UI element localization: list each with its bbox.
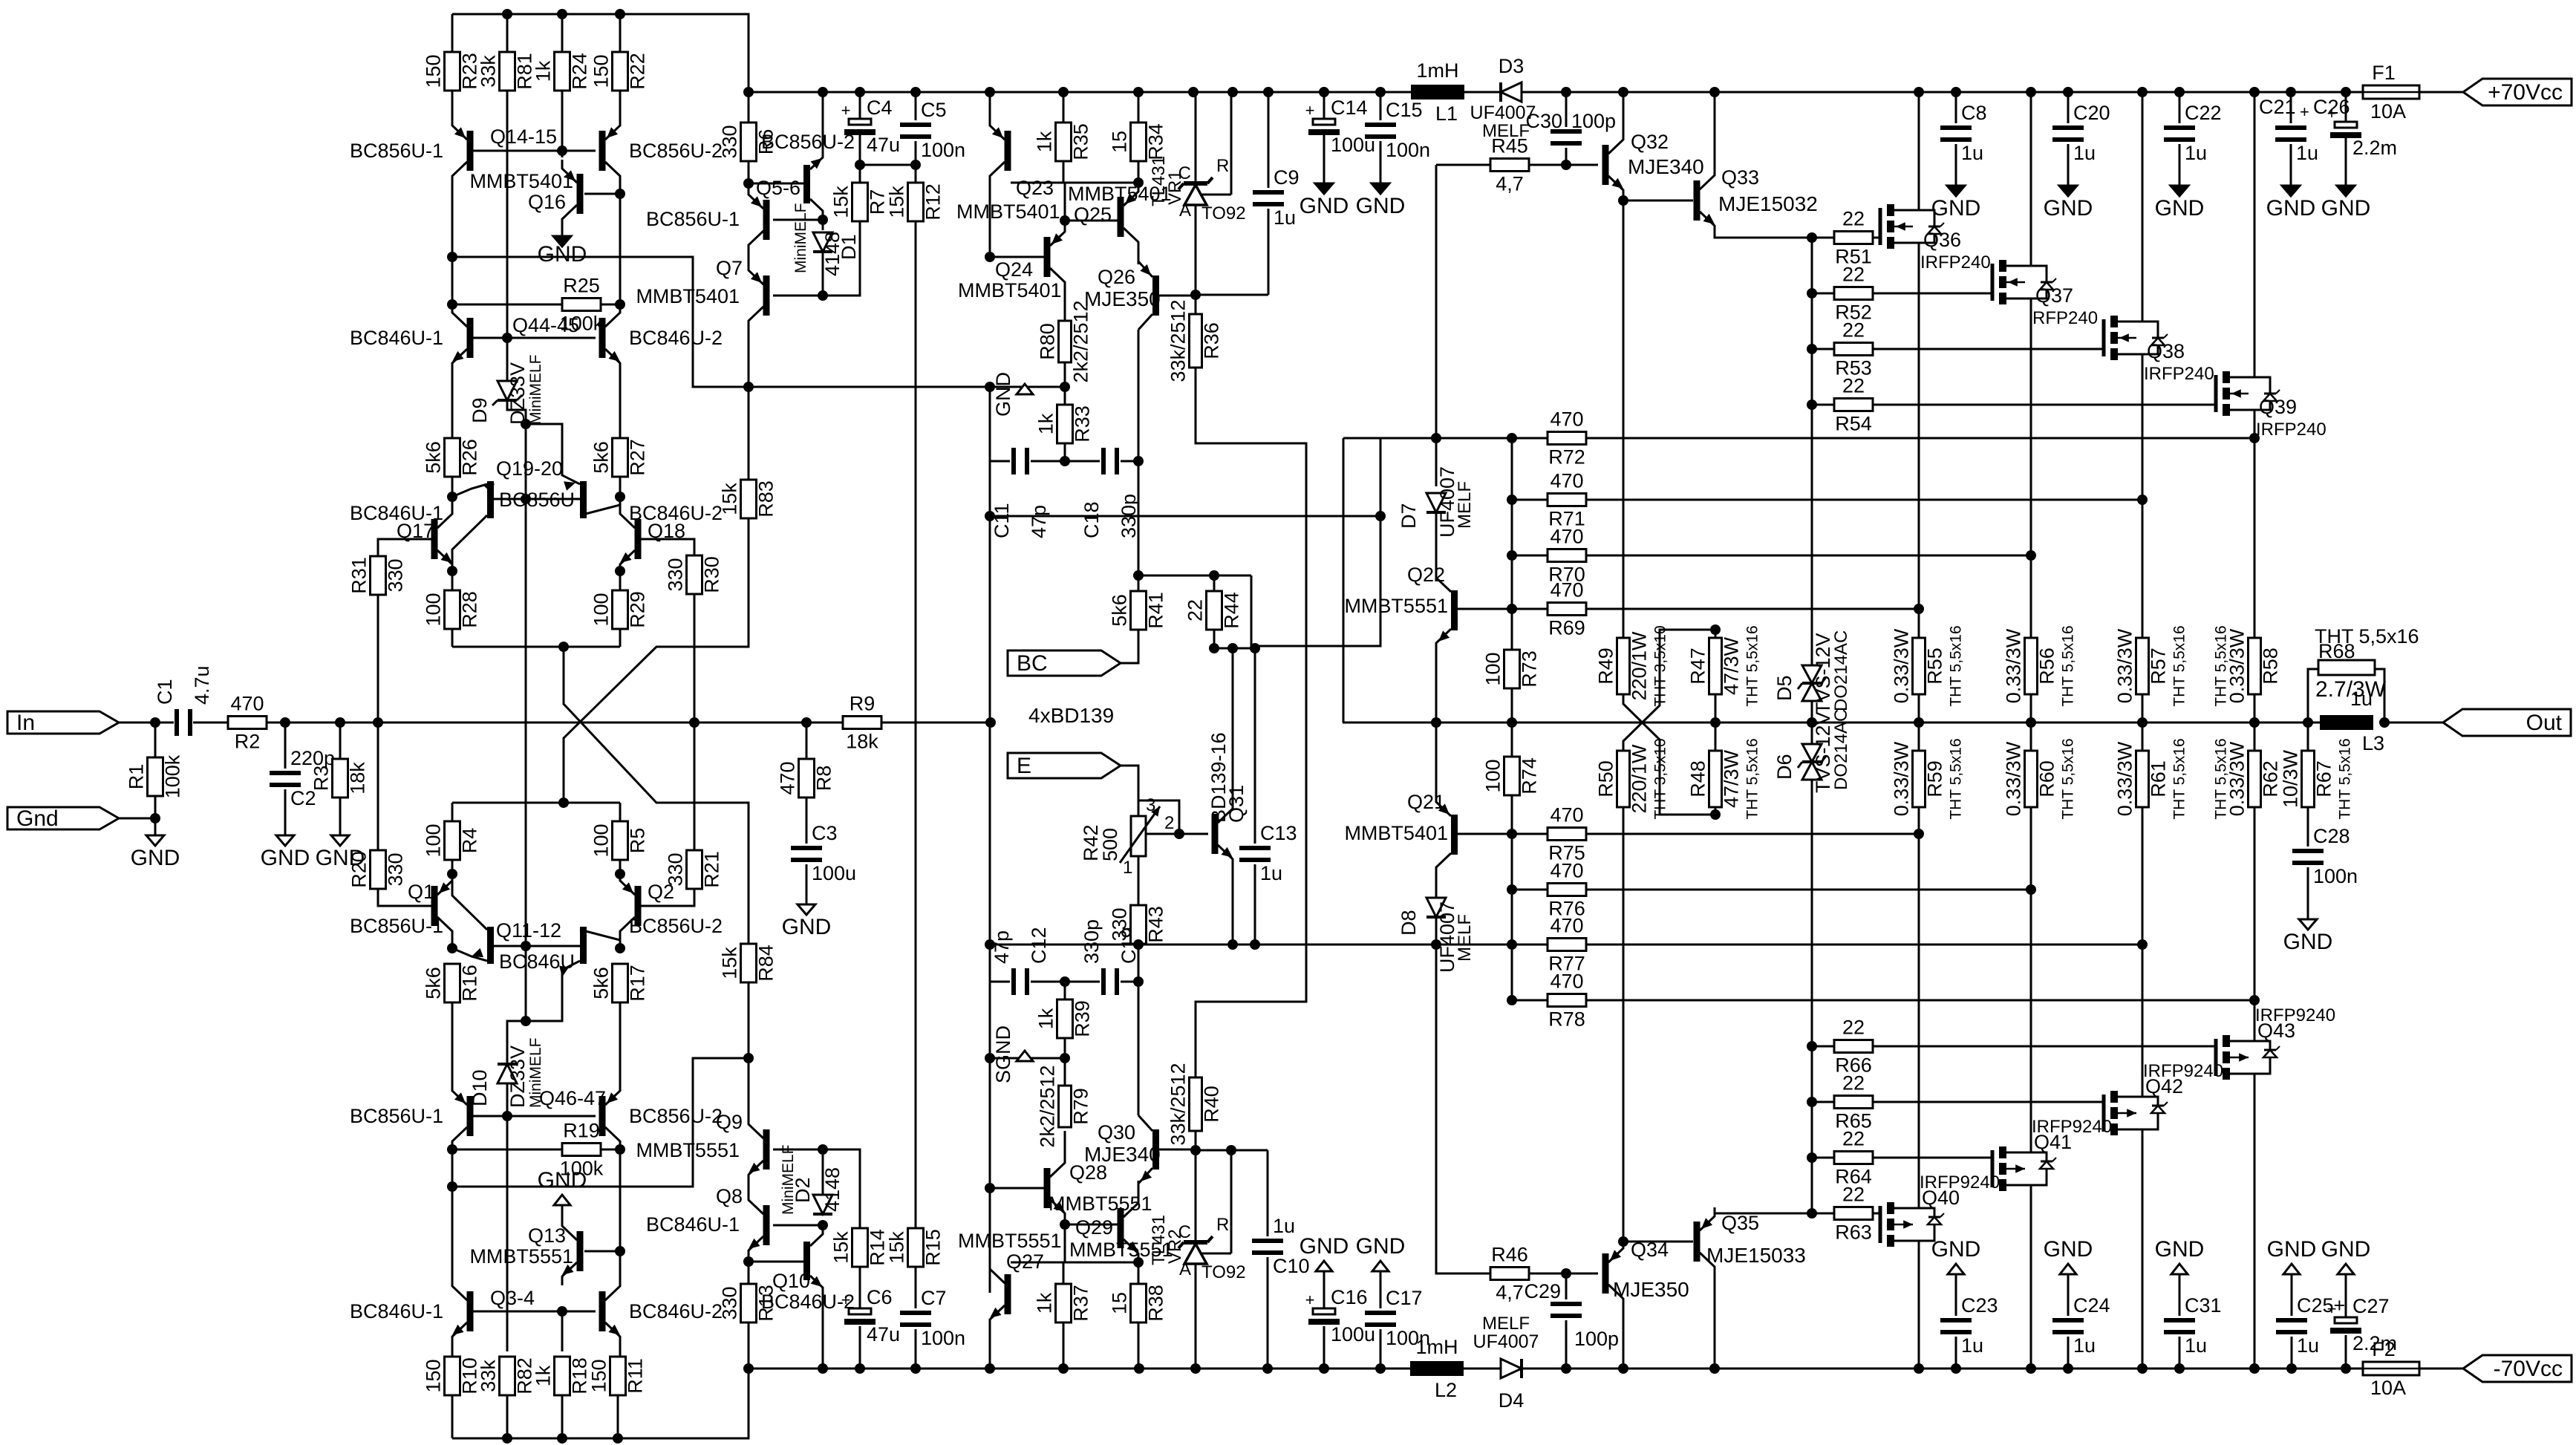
wire C4-C5 link: [860, 164, 916, 166]
MOSFET Q37 RFP240: [1991, 260, 2057, 304]
svg-text:-70Vcc: -70Vcc: [2494, 1357, 2563, 1381]
capacitor C3 100u: [791, 822, 856, 884]
svg-text:BC856U: BC856U: [499, 489, 575, 511]
ground C20: [2044, 186, 2093, 221]
resistor R80 2k2: [1037, 300, 1092, 382]
wire bus to R54: [1812, 404, 1834, 406]
wire Q31 collector: [1232, 648, 1234, 800]
wire R9 right: [881, 722, 991, 724]
label Q25: [1074, 203, 1112, 226]
capacitor C5 100n: [900, 99, 965, 161]
junction R78 right: [2249, 995, 2260, 1005]
label 100p: [1571, 110, 1616, 132]
svg-text:100: 100: [590, 823, 613, 857]
wire Q27 collector: [989, 1188, 991, 1260]
wire R22 top stub: [619, 14, 622, 52]
svg-text:1k: 1k: [532, 1365, 555, 1386]
junction zener col Q20: [521, 419, 531, 429]
svg-text:IRFP240: IRFP240: [2256, 420, 2326, 440]
svg-text:R50: R50: [1595, 760, 1617, 797]
svg-text:C20: C20: [2073, 102, 2110, 124]
svg-text:2k2/2512: 2k2/2512: [1037, 1065, 1059, 1147]
resistor R81 33k: [477, 52, 536, 91]
svg-text:C6: C6: [867, 1286, 893, 1308]
label D9: [469, 397, 491, 423]
junction on -rail: [1319, 1363, 1329, 1374]
resistor R75 470: [1548, 804, 1586, 864]
transistor Q35 MJE15033: [1694, 1207, 1715, 1276]
svg-text:10/3W: 10/3W: [2280, 749, 2302, 808]
wire Q24 collector: [1064, 291, 1066, 321]
svg-text:100: 100: [1482, 759, 1504, 792]
wire C10 bottom row: [1196, 1149, 1268, 1152]
wire -rail after D4: [1522, 1368, 2363, 1370]
wire R78 row b: [1586, 999, 2254, 1002]
label Q27: [1006, 1250, 1044, 1273]
resistor R10 150: [423, 1357, 481, 1395]
junction VR1 anode node: [1190, 290, 1201, 300]
transistor Q21 MMBT5401: [1344, 722, 1458, 897]
junction on +rail: [1227, 87, 1238, 97]
svg-text:MELF: MELF: [1482, 1314, 1530, 1334]
label R68 THT: [2315, 625, 2419, 648]
svg-text:22: 22: [1842, 319, 1865, 342]
transistor Q13 MMBT5551: [562, 1217, 584, 1285]
svg-text:R31: R31: [348, 557, 371, 594]
MOSFET Q39 IRFP240: [2214, 371, 2280, 416]
wire R1 to gnd: [154, 796, 157, 835]
svg-text:2: 2: [1164, 813, 1174, 833]
label Q10: [772, 1270, 810, 1292]
svg-text:C17: C17: [1386, 1287, 1423, 1309]
capacitor C11 47p: [991, 448, 1050, 538]
svg-text:15k: 15k: [719, 483, 741, 515]
svg-text:C25+: C25+: [2297, 1294, 2345, 1317]
wire R75 row b: [1586, 833, 1919, 835]
wire R10 bottom: [451, 1395, 454, 1438]
capacitor C22 1u: [2164, 102, 2222, 164]
wire Q32 emitter col: [1623, 199, 1625, 638]
resistor R14 15k: [830, 1228, 889, 1267]
label Q29: [1075, 1216, 1113, 1239]
svg-text:330: 330: [1109, 907, 1131, 941]
junction lower tail: [558, 797, 569, 808]
junction gnd: [150, 813, 160, 823]
junction on -rail: [1951, 1363, 1961, 1374]
svg-text:1u: 1u: [2350, 688, 2373, 710]
svg-text:R41: R41: [1145, 592, 1167, 629]
svg-text:R12: R12: [922, 183, 945, 221]
wire R68 up: [2308, 669, 2318, 722]
svg-text:+: +: [2300, 102, 2309, 121]
wire y775 row: [1138, 575, 1251, 577]
net flag E: [1008, 753, 1121, 778]
svg-text:MJE350: MJE350: [1084, 287, 1161, 310]
junction Q17 col: [447, 566, 457, 576]
svg-text:Q30: Q30: [1098, 1121, 1135, 1144]
resistor R35 1k: [1034, 123, 1092, 161]
junction L3 right: [2379, 717, 2390, 728]
svg-text:R44: R44: [1221, 592, 1243, 629]
label Q17: [397, 520, 434, 542]
label Q43 IRFP9240: [2255, 1005, 2335, 1025]
svg-text:D9: D9: [469, 397, 491, 423]
svg-text:BC856U-2: BC856U-2: [629, 915, 723, 937]
wire Q33 collector: [1714, 92, 1716, 166]
wire R25 row b: [601, 304, 620, 306]
svg-text:R22: R22: [627, 53, 649, 90]
wire Q34 collector: [1623, 1308, 1625, 1369]
svg-text:15: 15: [1109, 1292, 1131, 1314]
wire R53 to Q38: [1873, 348, 2104, 350]
junction R53 bus: [1807, 344, 1817, 354]
label DZ33V: [506, 362, 529, 425]
wire R61 top: [2142, 722, 2144, 751]
ground under R3: [316, 835, 365, 870]
ground C25+: [2267, 1237, 2317, 1274]
wire col D lower 7: [619, 1345, 622, 1357]
wire C13 bottom: [1254, 864, 1256, 945]
transistor Q29 MMBT5551: [1118, 1194, 1139, 1262]
junction gnd row A: [447, 252, 457, 262]
svg-text:Gnd: Gnd: [16, 806, 59, 831]
svg-text:BC846U-1: BC846U-1: [646, 1213, 740, 1236]
ground C14: [1300, 183, 1349, 218]
wire input: [119, 722, 174, 724]
svg-text:33k: 33k: [477, 55, 500, 88]
svg-text:R59: R59: [1924, 760, 1946, 797]
junction sgnd row col: [985, 1053, 995, 1063]
svg-text:R4: R4: [459, 828, 481, 854]
junction R13 top: [743, 1256, 754, 1267]
svg-text:220/1W: 220/1W: [1628, 631, 1651, 701]
junction on -rail: [1134, 1363, 1144, 1374]
junction Q34 emitter Q35 base: [1618, 1236, 1628, 1247]
resistor R59 0.33: [1891, 738, 1965, 819]
svg-text:R54: R54: [1835, 413, 1872, 435]
svg-text:33k: 33k: [477, 1360, 500, 1392]
wire R37 bottom: [1063, 1322, 1065, 1369]
junction on +rail: [2137, 87, 2148, 97]
svg-text:D8: D8: [1398, 910, 1420, 936]
junction Q44-45 base: [502, 333, 512, 343]
resistor R4 100: [423, 821, 481, 860]
wire Q31 emitter: [1232, 868, 1234, 945]
wire R19 row: [452, 1149, 562, 1151]
resistor R45 4,7: [1490, 135, 1529, 195]
label Q41: [2034, 1131, 2072, 1153]
wire R13 top: [748, 1262, 750, 1285]
junction C4 R7: [855, 160, 865, 170]
svg-text:1u: 1u: [2073, 1334, 2096, 1357]
supply flag +70Vcc: [2463, 79, 2572, 105]
svg-text:Q31: Q31: [1225, 785, 1248, 823]
svg-text:Q1: Q1: [408, 881, 434, 903]
transistor Q4 BC846U-2: [599, 1277, 621, 1345]
svg-text:C1: C1: [154, 679, 176, 705]
junction Q23 col Q24 base: [985, 252, 995, 262]
wire -rail: [749, 1368, 1411, 1370]
label Q18: [648, 520, 685, 542]
wire R81 to base rail: [506, 91, 509, 338]
svg-text:BC846U-2: BC846U-2: [629, 1300, 723, 1322]
svg-text:Q3-4: Q3-4: [490, 1287, 535, 1309]
svg-text:R69: R69: [1548, 617, 1585, 639]
wire Q9 base: [773, 1149, 860, 1228]
wire R39 top: [1064, 982, 1066, 1000]
transistor Q27 MMBT5551: [990, 1260, 1011, 1328]
label Q16: [528, 191, 566, 213]
wire R66 to Q43: [1873, 1046, 2216, 1048]
transistor Q6 BC856U-2: [803, 152, 823, 218]
resistor R21 330: [665, 850, 723, 889]
label MMBT5551 Q28: [1049, 1193, 1152, 1215]
junction R45 col R72: [1431, 433, 1441, 443]
label MMBT5551 Q9: [636, 1139, 740, 1161]
junction R48 bottom: [1710, 809, 1721, 820]
junction on +rail: [2286, 87, 2296, 97]
svg-text:R3: R3: [310, 766, 333, 792]
junction on -rail: [985, 1363, 995, 1374]
junction Q1 col: [447, 869, 457, 879]
svg-text:In: In: [16, 711, 35, 735]
resistor R7 15k: [830, 183, 889, 221]
wire Q40 source: [1918, 807, 1920, 1202]
junction R19 D: [615, 1144, 625, 1155]
ground C22: [2155, 186, 2205, 221]
label Q38 IRFP240: [2144, 364, 2214, 384]
label MMBT5401 Q16: [469, 170, 573, 192]
wire Q23 base row: [1011, 182, 1138, 184]
ground under R1: [131, 835, 180, 870]
wire R8 down: [806, 722, 808, 759]
svg-text:10A: 10A: [2370, 1377, 2406, 1399]
junction on +rail: [1709, 87, 1720, 97]
label MJE15033 Q35: [1706, 1244, 1806, 1267]
junction C2: [280, 717, 290, 728]
wire Q16 collector to gnd: [561, 228, 564, 236]
resistor R16 5k6: [423, 964, 481, 1002]
wire Q27 emitter col: [989, 1328, 991, 1369]
wire Q35 collector: [1714, 1276, 1716, 1369]
svg-text:C11: C11: [991, 503, 1013, 538]
wire Q30 base: [1159, 1149, 1196, 1151]
ground C28: [2283, 919, 2333, 954]
wire R75 row: [1458, 833, 1548, 835]
svg-text:R1: R1: [125, 764, 148, 790]
wire D5 bottom: [1811, 701, 1813, 744]
junction R8: [801, 717, 812, 728]
wire C25+ bottom: [2291, 1337, 2293, 1369]
svg-text:1k: 1k: [532, 60, 555, 82]
svg-text:+: +: [2327, 1299, 2337, 1318]
wire R81 top stub: [506, 14, 509, 52]
junction R72 right: [2249, 433, 2260, 443]
wire zener col to D10: [507, 1021, 526, 1063]
svg-text:22: 22: [1842, 375, 1865, 397]
label BC846U: [499, 950, 575, 973]
wire Q16 base: [584, 193, 620, 195]
wire C12 row: [990, 981, 1010, 983]
net flag BC: [1008, 650, 1121, 676]
ground C16: [1300, 1234, 1349, 1271]
junction C13 bottom: [1250, 939, 1260, 950]
junction D8 y1272: [1431, 939, 1441, 950]
resistor R82 33k: [477, 1357, 536, 1395]
wire Q9 collector: [748, 1058, 750, 1115]
junction R58 mid: [2249, 717, 2260, 728]
label D10: [469, 1069, 491, 1106]
svg-text:470: 470: [777, 761, 799, 795]
label BC856U-2 Q6: [761, 131, 855, 153]
svg-text:BC856U-1: BC856U-1: [350, 915, 443, 937]
wire Q42 drain: [2142, 1135, 2144, 1369]
wire R6 bottom: [748, 160, 750, 183]
wire D7 to Q22: [1435, 513, 1438, 581]
junction on +rail: [1188, 87, 1199, 97]
svg-text:GND: GND: [538, 1168, 587, 1193]
resistor R58 0.33: [2213, 625, 2282, 706]
wire Q13 collector: [561, 1205, 564, 1217]
wire col D upper 1: [619, 91, 622, 117]
wire Q6 base: [749, 183, 803, 185]
svg-text:MELF: MELF: [1455, 914, 1475, 962]
wire Q41 drain: [2030, 1191, 2032, 1369]
wire D1 col top: [822, 92, 824, 152]
svg-text:Q40: Q40: [1922, 1187, 1960, 1209]
svg-text:1u: 1u: [1961, 142, 1983, 164]
wire R64 to Q41: [1873, 1157, 1992, 1159]
svg-text:C8: C8: [1961, 102, 1987, 124]
svg-text:C7: C7: [921, 1287, 947, 1309]
wire C24 bottom: [2067, 1337, 2070, 1369]
signal ground SGND: [992, 1025, 1033, 1083]
junction on -rail: [1618, 1363, 1628, 1374]
svg-text:Q5-6: Q5-6: [756, 177, 800, 199]
wire R13 bottom: [748, 1322, 750, 1369]
label L3 1u: [2350, 688, 2373, 710]
junction R43 y1272: [1133, 939, 1144, 950]
svg-text:C16: C16: [1331, 1286, 1368, 1308]
svg-text:GND: GND: [2155, 196, 2205, 221]
svg-text:100: 100: [423, 593, 445, 626]
wire R73 bottom: [1511, 688, 1513, 722]
svg-text:L1: L1: [1435, 102, 1458, 125]
junction on +rail: [1914, 87, 1924, 97]
junction R64 bus: [1807, 1152, 1817, 1163]
svg-text:R17: R17: [627, 965, 649, 1002]
wire R70 row: [1512, 555, 1548, 557]
svg-text:R19: R19: [563, 1120, 600, 1142]
wire R52 to Q37: [1873, 293, 1992, 295]
wire R23 top stub: [451, 14, 454, 52]
wire C2 down: [284, 722, 287, 769]
wire C25+ top: [2291, 1274, 2293, 1316]
svg-text:DO214AC: DO214AC: [1831, 709, 1851, 790]
capacitor C23 1u: [1940, 1294, 1998, 1357]
svg-text:100: 100: [1482, 652, 1504, 685]
svg-text:BC846U-1: BC846U-1: [350, 327, 443, 349]
wire C11 row: [990, 460, 1010, 463]
ground C31: [2155, 1237, 2205, 1274]
svg-text:MMBT5401: MMBT5401: [956, 200, 1060, 223]
wire y595 row: [1343, 437, 1436, 440]
junction R45 C30: [1561, 160, 1571, 170]
svg-text:THT 5,5x16: THT 5,5x16: [2213, 625, 2230, 706]
svg-text:MiniMELF: MiniMELF: [792, 203, 809, 273]
wire R60 top: [2030, 722, 2032, 751]
wire R63 to Q40: [1873, 1213, 1880, 1215]
ground C23: [1931, 1237, 1981, 1274]
resistor R6 330: [719, 123, 777, 161]
wire Q28 collector: [1064, 1131, 1066, 1154]
wire col D upper 3: [619, 372, 622, 438]
svg-text:22: 22: [1842, 208, 1865, 230]
svg-text:GND: GND: [1931, 196, 1981, 221]
svg-text:100n: 100n: [1386, 139, 1430, 161]
svg-text:GND: GND: [2044, 1237, 2093, 1262]
wire C20 bottom: [2067, 144, 2070, 186]
svg-text:Q42: Q42: [2145, 1075, 2183, 1097]
transistor Q8 BC846U-1: [749, 1191, 770, 1259]
wire Q43 drain: [2254, 1080, 2256, 1369]
svg-text:Q22: Q22: [1407, 564, 1445, 586]
wire R34 bottom stub: [1138, 161, 1140, 183]
resistor R12 15k: [886, 183, 945, 221]
wire bottom mini rail: [452, 1369, 749, 1438]
junction Q7 base D1: [818, 290, 828, 301]
svg-text:R56: R56: [2036, 648, 2058, 685]
svg-text:Q46-47: Q46-47: [539, 1087, 606, 1109]
transistor Q1 BC856U-1: [431, 872, 453, 940]
junction R77 bus: [1507, 939, 1517, 950]
junction wiper: [1174, 829, 1184, 839]
svg-text:1k: 1k: [1034, 1292, 1056, 1314]
label BC846U-1 Q44: [350, 327, 443, 349]
label D2 MiniMELF: [780, 1144, 797, 1215]
junction Q18 col: [615, 566, 625, 576]
label D7: [1398, 503, 1420, 529]
label R68: [2318, 640, 2355, 662]
svg-text:THT 5,5x16: THT 5,5x16: [1744, 625, 1761, 706]
junction Q5 base D1: [818, 215, 828, 225]
svg-text:GND: GND: [782, 915, 832, 939]
wire R59 top: [1918, 722, 1920, 751]
junction R72 bus: [1507, 433, 1517, 443]
svg-text:3: 3: [1146, 795, 1155, 815]
svg-text:R28: R28: [459, 591, 481, 628]
wire gate bus lower: [1811, 780, 1813, 1213]
junction on -rail: [1058, 1363, 1069, 1374]
wire C6 bottom: [859, 1326, 861, 1369]
svg-text:MMBT5551: MMBT5551: [958, 1230, 1062, 1252]
transistor Q11 BC846U: [452, 874, 494, 964]
wire col A lower 5: [451, 1002, 454, 1082]
svg-text:10A: 10A: [2370, 100, 2406, 123]
label BC846U-1 Q8: [646, 1213, 740, 1236]
wire R31 to Q17 base: [378, 539, 431, 556]
capacitor C24 1u: [2052, 1294, 2110, 1357]
wire R67 to C28: [2307, 807, 2309, 847]
label BC856U-1 Q14: [350, 140, 443, 162]
capacitor C17 100n: [1365, 1287, 1430, 1349]
junction R47 top: [1710, 624, 1721, 635]
wire Q9-Q8 emitter col: [748, 1184, 750, 1191]
svg-text:R46: R46: [1491, 1244, 1528, 1266]
junction on bottom mini rail: [557, 1433, 567, 1444]
wire R48 bottom stub: [1715, 807, 1717, 815]
wire C21+ bottom: [2290, 144, 2292, 186]
